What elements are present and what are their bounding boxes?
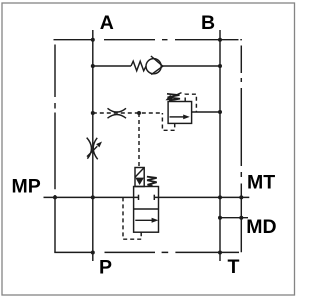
orifice (fixed restrictor) bbox=[108, 108, 127, 118]
wire: check valve branch left bbox=[93, 65, 131, 67]
adjustable throttle arcs on A-P line bbox=[87, 138, 98, 160]
wire: relief valve output line bbox=[192, 111, 220, 113]
main valve U1 pilot element diagonal bbox=[135, 168, 144, 178]
junction dot: MT at right border bbox=[239, 195, 243, 199]
junction dot: MP at A-P line bbox=[91, 195, 95, 199]
junction dot: MD at right border bbox=[239, 216, 243, 220]
junction dot: T at bottom border bbox=[218, 251, 222, 255]
svg-text:MP: MP bbox=[12, 175, 41, 197]
wire: B-T vertical line bbox=[219, 30, 221, 261]
manifold enclosure border bottom bbox=[54, 251, 239, 253]
svg-text:MD: MD bbox=[246, 216, 276, 238]
pilot line: dashed line A to relief (with orifice) bbox=[93, 112, 163, 114]
manifold enclosure border left bbox=[54, 45, 56, 253]
main valve U1 spring bbox=[147, 177, 157, 186]
relief valve RV flow arrow bbox=[170, 116, 185, 118]
wire: A-P vertical line bbox=[92, 30, 94, 261]
junction dot: pilot line tee bbox=[137, 111, 141, 115]
junction dot: P at bottom border bbox=[91, 251, 95, 255]
junction dot: check branch at B line bbox=[218, 64, 222, 68]
manifold enclosure border (dash-dot) top bbox=[54, 39, 242, 41]
wire: MD stub line bbox=[220, 217, 248, 219]
svg-text:P: P bbox=[99, 256, 112, 278]
main valve U1 flow arrow (lower position) bbox=[135, 219, 152, 221]
svg-text:B: B bbox=[201, 12, 215, 34]
main valve U1 body bbox=[134, 187, 159, 233]
junction dot: MP-MT at B-T line bbox=[218, 195, 222, 199]
junction dot: MP at left border bbox=[53, 195, 57, 199]
adjustable throttle arrow bbox=[87, 146, 97, 156]
junction dot: check branch at A line bbox=[91, 64, 95, 68]
junction dot: pilot line at A line bbox=[91, 111, 95, 115]
svg-text:MT: MT bbox=[247, 171, 275, 193]
main valve U1 closed-port tick right bbox=[153, 195, 155, 200]
main valve U1 closed-port tick left bbox=[138, 195, 140, 200]
relief valve RV body bbox=[168, 102, 192, 124]
manifold enclosure border right bbox=[240, 46, 242, 253]
junction dot: MD at B-T line bbox=[218, 216, 222, 220]
pilot line: dashed drop to main valve pilot bbox=[138, 113, 140, 168]
svg-text:T: T bbox=[228, 256, 240, 278]
relief valve RV adjustable spring bbox=[167, 94, 180, 101]
wire: MP main line right of valve to MT port bbox=[154, 196, 249, 198]
svg-text:A: A bbox=[100, 12, 114, 34]
wire: check valve branch right bbox=[163, 65, 221, 67]
main valve U1 pilot element triangle bbox=[135, 178, 144, 185]
relief valve pilot drain dashed loop (bottom to pilot line) bbox=[162, 113, 174, 130]
wire: MP main line left of valve bbox=[44, 196, 139, 198]
junction dot: relief output at B-T line bbox=[218, 110, 222, 114]
check valve V1 seat bbox=[151, 56, 163, 75]
main valve U1 pilot element box bbox=[135, 168, 144, 187]
check valve V1 spring bbox=[131, 61, 146, 71]
main valve U1 position divider bbox=[134, 208, 159, 210]
main valve U1 pilot dashed loop from MP line to bottom bbox=[123, 197, 141, 239]
junction dot: B at top border bbox=[218, 38, 222, 42]
junction dot: A at top border bbox=[91, 38, 95, 42]
relief valve vent dashed loop (top to outlet) bbox=[185, 94, 196, 112]
check valve V1 ball bbox=[146, 59, 161, 74]
